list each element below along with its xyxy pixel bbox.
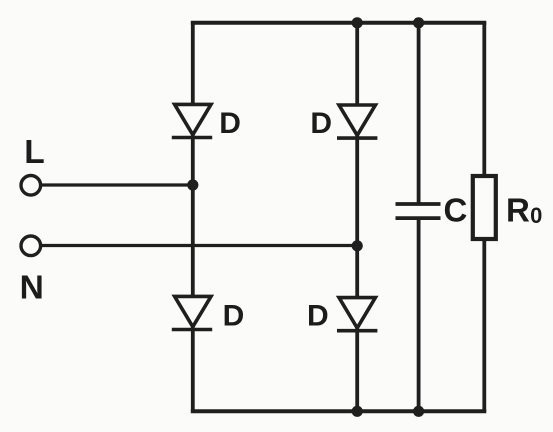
node junction top-middle <box>352 17 363 28</box>
wire resistor branch <box>482 23 486 412</box>
terminal N <box>21 236 41 256</box>
svg-text:D: D <box>219 107 241 140</box>
wire terminal L to bridge <box>39 183 193 186</box>
svg-text:N: N <box>20 270 44 307</box>
svg-text:D: D <box>310 107 332 140</box>
capacitor C plates <box>396 204 441 218</box>
node junction L-bridge <box>187 179 198 190</box>
terminal L <box>21 176 41 196</box>
svg-text:C: C <box>444 192 468 229</box>
wire terminal N to bridge <box>39 244 357 247</box>
wire left bridge leg <box>191 23 195 412</box>
diode D bottom-middle <box>337 298 377 331</box>
diode D bottom-left <box>172 296 212 329</box>
svg-text:L: L <box>24 134 44 171</box>
wire capacitor branch lower <box>417 218 421 411</box>
svg-text:D: D <box>223 299 245 332</box>
node junction N-bridge <box>352 240 363 251</box>
diode D top-left <box>172 104 212 137</box>
diode D top-middle <box>337 105 377 138</box>
node junction top-capacitor <box>413 17 424 28</box>
wire bottom rail <box>191 409 487 413</box>
wire capacitor branch upper <box>417 23 421 204</box>
resistor R0 <box>473 176 496 239</box>
node junction bottom-middle <box>352 406 363 417</box>
wire middle bridge leg <box>355 23 359 412</box>
wire top rail <box>191 21 487 25</box>
node junction bottom-capacitor <box>413 406 424 417</box>
svg-text:D: D <box>307 300 329 333</box>
